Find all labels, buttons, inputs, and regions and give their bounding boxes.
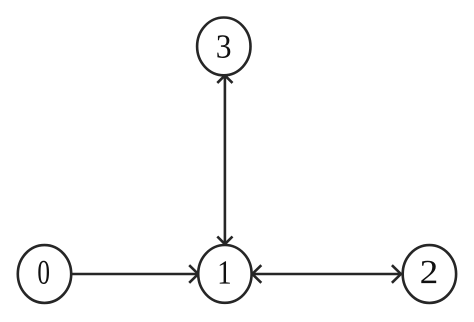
node 2	[403, 245, 456, 303]
label 2	[421, 261, 436, 283]
node 1	[198, 245, 251, 303]
node 0	[18, 245, 71, 303]
wire edge 1<->2 shaft	[252, 273, 401, 276]
arrowhead into node 1 from above	[217, 237, 232, 245]
arrowhead into node 3 from below	[217, 75, 232, 83]
label 3	[217, 35, 230, 58]
wire edge 0->1 shaft	[71, 273, 196, 276]
arrowhead into node 1 from left	[189, 265, 198, 283]
label 0	[38, 261, 49, 284]
wire edge 1<->3 shaft	[224, 76, 227, 244]
arrowhead into node 2 from left	[392, 265, 401, 283]
node 3	[197, 18, 250, 76]
arrowhead into node 1 from right	[252, 265, 261, 283]
label 1	[220, 261, 230, 283]
